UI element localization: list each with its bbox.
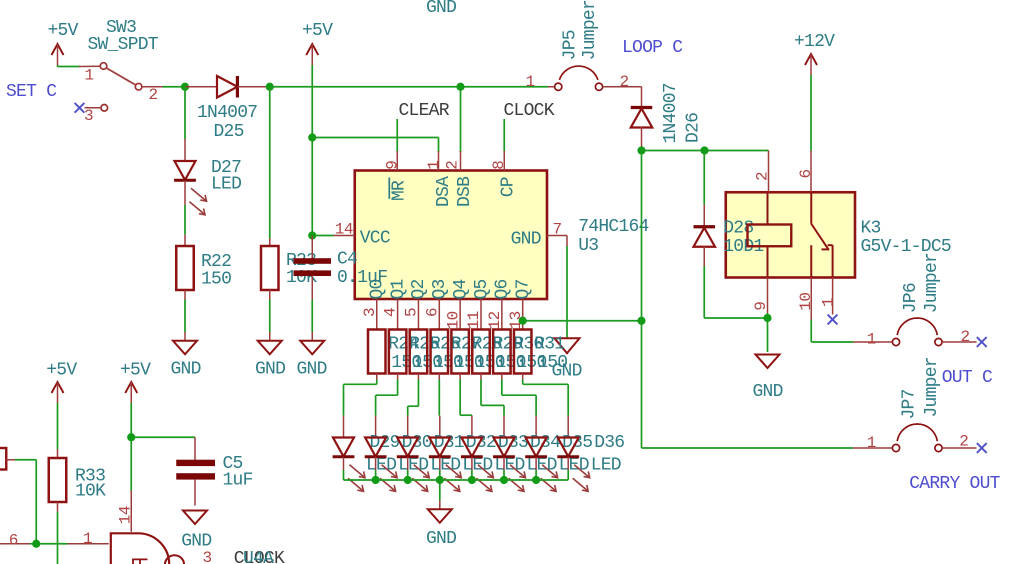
svg-text:2: 2 [620,73,629,91]
svg-text:GND: GND [426,0,456,18]
svg-text:GND: GND [511,230,541,250]
svg-text:OUT C: OUT C [942,368,993,388]
svg-text:D30: D30 [402,433,432,453]
svg-text:+5V: +5V [46,361,77,381]
svg-text:6: 6 [423,308,441,317]
svg-text:6: 6 [9,531,18,549]
svg-text:DSB: DSB [455,176,475,207]
svg-text:GND: GND [297,360,327,380]
svg-text:+5V: +5V [48,21,79,41]
svg-text:1N4007: 1N4007 [661,83,681,143]
svg-text:GND: GND [255,360,285,380]
svg-text:D31: D31 [434,433,464,453]
svg-text:JP6: JP6 [901,283,921,313]
svg-text:GND: GND [171,360,201,380]
svg-text:LED: LED [591,455,621,475]
svg-text:2: 2 [444,161,462,170]
svg-text:2: 2 [753,172,771,181]
svg-text:10K: 10K [75,482,106,502]
svg-text:CP: CP [499,177,519,197]
svg-text:9: 9 [384,161,402,170]
svg-text:CLEAR: CLEAR [399,101,450,121]
svg-text:5: 5 [403,308,421,317]
svg-text:R31: R31 [534,334,564,354]
svg-text:D34: D34 [530,433,560,453]
svg-text:Jumper: Jumper [922,253,942,313]
svg-text:3: 3 [361,308,379,317]
svg-text:D25: D25 [214,122,244,142]
svg-text:74HC164: 74HC164 [578,217,648,237]
svg-text:D32: D32 [466,433,496,453]
svg-text:3: 3 [203,549,212,564]
svg-text:1: 1 [819,298,837,307]
svg-text:LED: LED [211,175,241,195]
svg-text:1N4007: 1N4007 [197,103,257,123]
svg-text:U4A: U4A [243,549,274,564]
svg-text:LOOP C: LOOP C [622,38,683,58]
svg-text:Q1: Q1 [388,279,408,299]
svg-text:10: 10 [444,311,462,329]
svg-text:150: 150 [201,270,231,290]
svg-text:JP5: JP5 [561,30,581,60]
svg-text:GND: GND [426,529,456,549]
svg-text:1: 1 [867,434,876,452]
svg-text:1: 1 [867,330,876,348]
svg-text:JP7: JP7 [900,389,920,419]
svg-text:Jumper: Jumper [922,357,942,417]
svg-text:D28: D28 [723,218,753,238]
svg-text:1: 1 [425,161,443,170]
svg-text:Q6: Q6 [493,279,513,299]
svg-text:4: 4 [382,308,400,317]
svg-text:10: 10 [797,293,815,311]
svg-text:Q2: Q2 [409,279,429,299]
svg-text:GND: GND [753,382,783,402]
svg-text:1: 1 [526,73,535,91]
svg-text:+5V: +5V [120,361,151,381]
svg-text:2: 2 [961,328,970,346]
svg-text:+5V: +5V [302,21,333,41]
svg-text:Jumper: Jumper [580,0,600,60]
svg-text:1uF: 1uF [223,470,253,490]
svg-text:CARRY OUT: CARRY OUT [909,474,1000,494]
svg-text:8: 8 [490,161,508,170]
svg-text:Q0: Q0 [368,279,388,299]
svg-text:12: 12 [486,311,504,329]
svg-text:14: 14 [116,506,134,524]
svg-text:9: 9 [752,302,770,311]
svg-text:+12V: +12V [794,32,835,52]
svg-text:3: 3 [84,107,93,125]
svg-text:1: 1 [85,67,94,85]
svg-text:CLOCK: CLOCK [504,101,555,121]
svg-text:U3: U3 [578,236,598,256]
svg-text:C4: C4 [337,250,357,270]
svg-text:Q4: Q4 [451,279,471,299]
svg-text:11: 11 [465,311,483,329]
svg-text:2: 2 [149,86,158,104]
svg-text:Q5: Q5 [472,279,492,299]
svg-text:Q7: Q7 [513,279,533,299]
svg-text:MR: MR [389,180,409,201]
svg-text:SW_SPDT: SW_SPDT [88,35,159,55]
svg-text:SET C: SET C [6,82,57,102]
svg-text:DSA: DSA [434,176,454,207]
svg-text:VCC: VCC [360,228,391,248]
svg-text:6: 6 [797,169,815,178]
svg-text:D29: D29 [370,433,400,453]
svg-text:150: 150 [537,353,567,373]
svg-text:K3: K3 [861,218,881,238]
svg-text:1: 1 [83,530,92,548]
svg-text:D36: D36 [594,433,624,453]
svg-text:D33: D33 [498,433,528,453]
svg-text:D35: D35 [562,433,592,453]
svg-text:D26: D26 [684,113,704,143]
svg-text:Q3: Q3 [430,279,450,299]
